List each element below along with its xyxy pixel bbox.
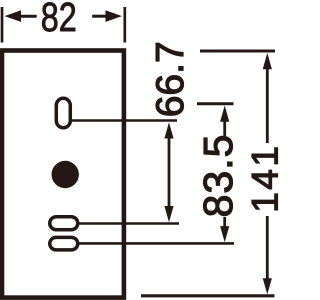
dimension line 83.5 with arrows [220, 106, 229, 122]
dimension line 141 with arrows [263, 53, 272, 69]
dimension line 66.7 with arrows [164, 122, 173, 138]
svg-text:66.7: 66.7 [149, 41, 192, 117]
upper mounting slot (horizontal) [50, 217, 78, 230]
dimension 82 left arrow [5, 10, 22, 22]
knockout hole (filled circle) [51, 161, 78, 188]
svg-text:141: 141 [244, 144, 282, 213]
lower mounting slot (horizontal) [50, 237, 78, 250]
mounting plate outline [2, 51, 124, 298]
keyhole slot (vertical) [56, 98, 70, 128]
extension line right (82) [123, 7, 126, 43]
leader from keyhole slot [71, 119, 177, 122]
leader from upper slot [79, 222, 180, 225]
svg-text:82: 82 [41, 0, 77, 40]
leader from lower slot [79, 242, 235, 245]
dimension 82 right arrow [106, 10, 122, 22]
svg-text:83.5: 83.5 [195, 134, 241, 218]
extension line 83.5 top [197, 102, 234, 105]
bottom extension line (141) [141, 294, 275, 297]
extension line left (82) [1, 7, 4, 43]
top extension line (141/66.7) [200, 50, 275, 53]
